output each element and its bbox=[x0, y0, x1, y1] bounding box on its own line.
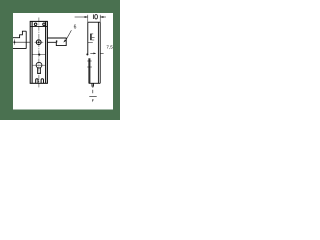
svg-text:6: 6 bbox=[74, 24, 77, 30]
leader arrowhead bbox=[63, 40, 66, 43]
keyhole horizontal centerline bbox=[33, 64, 46, 66]
dimension 10 right arrow line bbox=[100, 16, 106, 18]
small arrow below pointing down bbox=[92, 99, 93, 102]
dimension 10 right extension line bbox=[99, 15, 101, 22]
bolt step dark corner bbox=[56, 40, 57, 42]
side view bottom edge bbox=[89, 82, 101, 84]
leader line to label 6 bbox=[66, 30, 72, 40]
bottom stub foot bbox=[92, 83, 94, 86]
side view inner line below bolt bbox=[88, 42, 93, 44]
front view inner top line bbox=[30, 25, 47, 27]
bolt bar tick top bbox=[90, 33, 93, 35]
small hook arrow at left wall base bbox=[86, 53, 88, 55]
side view right wall outer bbox=[99, 22, 101, 83]
dimension 10 left arrowhead bbox=[85, 16, 88, 18]
thickness extension line bbox=[89, 96, 96, 98]
front view inner right wall bbox=[45, 21, 47, 83]
keyhole slot bottom bbox=[37, 72, 41, 74]
side view upper left wall bbox=[87, 22, 89, 53]
centerline tick below stub bbox=[92, 86, 93, 88]
left mounting tab (stepped) bbox=[13, 31, 26, 38]
vertical centerline bbox=[38, 18, 40, 88]
dimension 7,5 line left segment with arrow bbox=[90, 52, 95, 54]
middle pin horizontal centerline bbox=[33, 54, 47, 56]
hinge post bbox=[25, 31, 27, 48]
tick across lower wall lower bbox=[87, 66, 92, 68]
bolt bar tick lower bbox=[92, 39, 95, 41]
svg-text:7,5: 7,5 bbox=[106, 44, 113, 49]
side view top edge bbox=[88, 21, 101, 23]
dimension 10 right arrowhead bbox=[100, 16, 103, 18]
hinge pivot line bbox=[14, 41, 30, 43]
bolt bar tick middle bbox=[92, 37, 95, 39]
spindle hole center dot bbox=[38, 41, 40, 43]
side view right wall inner bbox=[97, 22, 99, 83]
dimension 7,5 right-pointing arrowhead bbox=[93, 53, 96, 55]
white drawing sheet bbox=[13, 13, 113, 110]
hinge pivot dot bbox=[13, 41, 15, 43]
bottom-right slot bbox=[41, 79, 43, 84]
top-left screw hole bbox=[34, 23, 37, 26]
spindle hole circle bbox=[36, 40, 41, 45]
spindle hole horizontal centerline bbox=[35, 41, 44, 43]
keyhole circle bbox=[36, 62, 42, 68]
side view lower left wall inner bbox=[89, 58, 91, 83]
label 10 digit 0 bbox=[95, 15, 98, 19]
side view bolt bar (hatched) bbox=[90, 34, 92, 40]
dimension 10 left extension line bbox=[87, 15, 89, 22]
label 10 digit 1 bbox=[92, 14, 94, 19]
bottom-left slot bbox=[36, 79, 38, 83]
middle pin dot bbox=[38, 54, 40, 56]
dimension 7,5 line right segment bbox=[100, 52, 103, 54]
front view outer case rectangle bbox=[30, 21, 47, 83]
latch bolt (right protrusion) bbox=[48, 38, 67, 46]
top-right screw hole bbox=[43, 23, 46, 26]
green frame background bbox=[0, 0, 120, 120]
short centerline dash bbox=[92, 90, 94, 93]
keyhole slot bbox=[38, 68, 41, 74]
dimension 10 left arrow line bbox=[75, 16, 88, 18]
hinge pivot vertical tick bbox=[13, 39, 15, 44]
side view lower left wall outer bbox=[88, 58, 90, 83]
tick across lower wall upper bbox=[87, 60, 92, 62]
lower hinge line bbox=[13, 48, 26, 50]
front view inner left wall bbox=[31, 21, 33, 83]
